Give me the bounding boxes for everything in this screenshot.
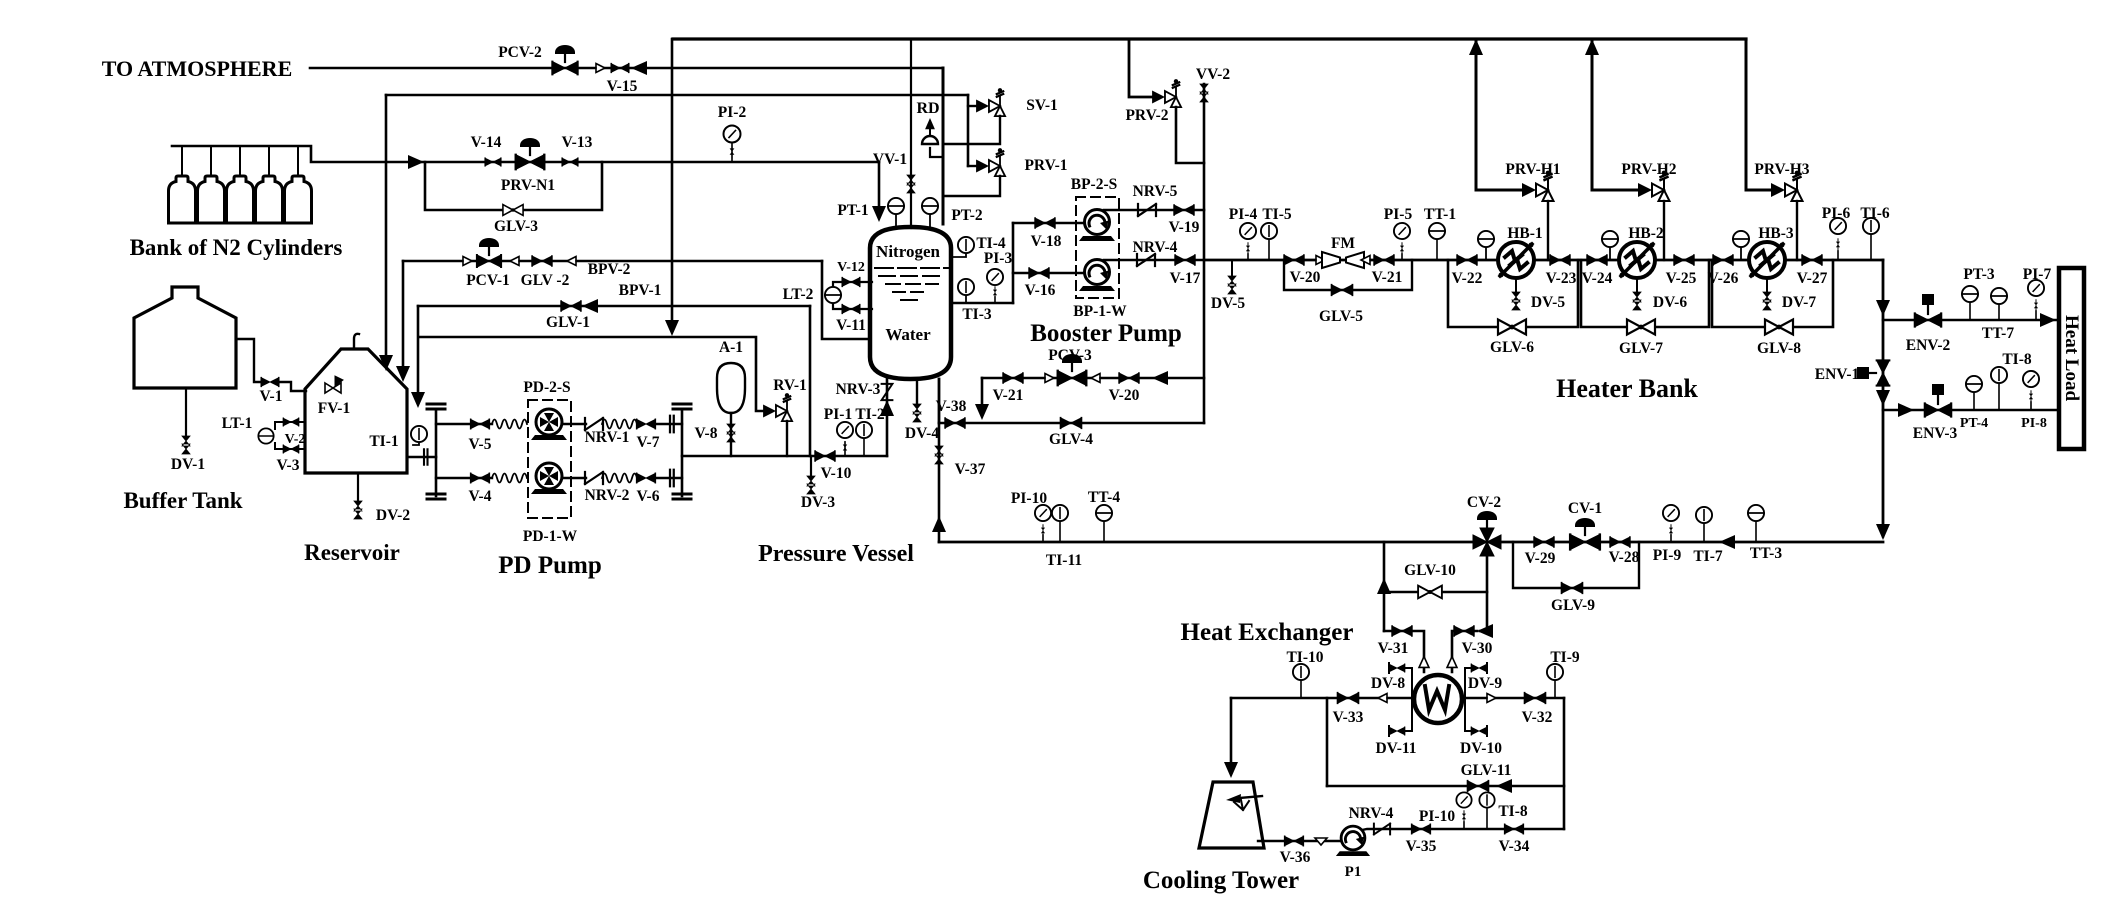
wire BP-2-S outlet NRV-5 line bbox=[1104, 209, 1204, 212]
svg-text:V-16: V-16 bbox=[1025, 282, 1056, 299]
svg-text:V-10: V-10 bbox=[821, 465, 852, 482]
svg-text:TI-6: TI-6 bbox=[1860, 205, 1890, 222]
wire main return line bbox=[939, 541, 1883, 544]
svg-text:V-6: V-6 bbox=[637, 488, 660, 505]
valve V-2 bbox=[283, 418, 298, 426]
svg-text:GLV-5: GLV-5 bbox=[1319, 308, 1363, 325]
flow arrow into reservoir wall bbox=[411, 392, 425, 408]
svg-text:ENV-3: ENV-3 bbox=[1913, 425, 1958, 442]
svg-text:DV-3: DV-3 bbox=[801, 494, 835, 511]
valve V-19 bbox=[1174, 205, 1194, 215]
svg-text:PI-4: PI-4 bbox=[1229, 206, 1258, 223]
svg-text:V-3: V-3 bbox=[277, 457, 300, 474]
wire PRV-2 outlet bbox=[1176, 107, 1204, 163]
svg-text:PI-9: PI-9 bbox=[1653, 547, 1682, 564]
gauge PT-4 bbox=[1973, 392, 1975, 410]
flow arrow on PCV-3 line bbox=[1152, 371, 1168, 385]
valve V-3 bbox=[283, 445, 298, 453]
flow arrow into V-15 bbox=[631, 61, 647, 75]
flow arrow up bbox=[932, 516, 946, 532]
wire GLV-10 branch riser bbox=[1383, 542, 1386, 631]
valve FV-1 float bbox=[325, 376, 343, 393]
valve V-6 bbox=[637, 473, 656, 482]
svg-text:DV-5: DV-5 bbox=[1531, 294, 1565, 311]
wire buffer outlet to V-1 bbox=[236, 339, 260, 382]
valve GLV-1 bbox=[561, 301, 581, 311]
svg-text:RD: RD bbox=[916, 100, 939, 117]
svg-text:DV-11: DV-11 bbox=[1375, 740, 1416, 757]
svg-text:HB-1: HB-1 bbox=[1507, 225, 1542, 242]
svg-text:NRV-4: NRV-4 bbox=[1133, 239, 1178, 256]
svg-text:TI-2: TI-2 bbox=[855, 406, 885, 423]
wire V-18 branch bbox=[1013, 222, 1084, 225]
flow arrow into heat load bbox=[2040, 313, 2056, 327]
gauge PI-3 bbox=[994, 297, 996, 303]
wire HX right port bbox=[1462, 697, 1564, 700]
flow arrow down bbox=[975, 404, 989, 420]
wire relief header y95 bbox=[386, 94, 968, 97]
svg-text:V-21: V-21 bbox=[1372, 269, 1403, 286]
svg-text:PD-2-S: PD-2-S bbox=[523, 379, 570, 396]
svg-text:Bank of N2 Cylinders: Bank of N2 Cylinders bbox=[130, 235, 343, 260]
svg-text:V-5: V-5 bbox=[469, 436, 492, 453]
valve V-13 bbox=[562, 158, 578, 166]
svg-text:PRV-H3: PRV-H3 bbox=[1754, 161, 1809, 178]
valve GLV-7 bbox=[1627, 320, 1655, 335]
svg-text:PD-1-W: PD-1-W bbox=[523, 528, 578, 545]
open arrow hot inlet bbox=[1419, 657, 1429, 668]
svg-text:Pressure Vessel: Pressure Vessel bbox=[758, 541, 914, 567]
svg-text:PRV-N1: PRV-N1 bbox=[501, 177, 555, 194]
valve V-21b bbox=[1003, 373, 1023, 383]
LT-2 standpipe bbox=[833, 282, 872, 288]
svg-text:V-19: V-19 bbox=[1169, 219, 1200, 236]
reducer bbox=[567, 257, 581, 266]
cylinder 4 drop bbox=[268, 146, 270, 177]
open arrow hot outlet bbox=[1447, 657, 1457, 668]
svg-text:V-14: V-14 bbox=[471, 134, 502, 151]
wire PRV-H1 stem bbox=[1547, 201, 1549, 260]
valve PCV-2 bbox=[552, 62, 577, 75]
pump P1 bbox=[1336, 826, 1370, 856]
wire drop to reservoir roof bbox=[385, 95, 388, 358]
valve V-20b bbox=[1119, 373, 1139, 383]
wire GLV-5 bypass bbox=[1284, 260, 1412, 290]
svg-text:Heat Load: Heat Load bbox=[2061, 315, 2082, 401]
svg-text:PI-5: PI-5 bbox=[1384, 206, 1413, 223]
relief bracket: SV-1/PRV-1 feed bbox=[967, 95, 970, 166]
wire GLV-8 bypass box bbox=[1712, 260, 1833, 327]
gauge TI-9 bbox=[1554, 681, 1556, 698]
wire GLV-4 line bbox=[939, 422, 1204, 425]
valve GLV-10 bbox=[1418, 586, 1442, 599]
N2 cylinder 2 bbox=[198, 176, 225, 223]
cooling tower bbox=[1199, 782, 1264, 848]
N2 manifold bbox=[172, 146, 416, 162]
wire PCV-3 bypass line bbox=[982, 377, 1204, 380]
valve PCV-1 bbox=[477, 255, 501, 267]
wire V-1 to reservoir bbox=[279, 382, 306, 391]
valve V-22 bbox=[1457, 255, 1477, 265]
svg-text:VV-1: VV-1 bbox=[873, 151, 907, 168]
svg-text:V-18: V-18 bbox=[1031, 233, 1062, 250]
svg-text:V-8: V-8 bbox=[695, 425, 718, 442]
check valve NRV-3 bbox=[882, 384, 893, 400]
gauge TI-2 bbox=[863, 439, 865, 456]
valve V-29 bbox=[1534, 537, 1554, 547]
gauge PI-10b bbox=[1463, 822, 1465, 829]
valve VV-2 bbox=[1200, 84, 1208, 102]
pump BP-1-W bbox=[1079, 260, 1115, 292]
svg-text:LT-2: LT-2 bbox=[783, 286, 814, 303]
reducer bbox=[1040, 374, 1054, 383]
wire V-31/V-30 line bbox=[1384, 631, 1424, 672]
wire GLV-3 bypass loop bbox=[425, 162, 602, 210]
gauge TI-4 bbox=[953, 253, 966, 257]
svg-text:FM: FM bbox=[1331, 235, 1355, 252]
check valve NRV-5 bbox=[1138, 204, 1156, 216]
svg-text:GLV-10: GLV-10 bbox=[1404, 562, 1456, 579]
wire PRV-1 outlet bbox=[943, 176, 1000, 196]
flow arrow onto return bbox=[1876, 524, 1890, 540]
svg-text:V-38: V-38 bbox=[936, 398, 967, 415]
flow arrow up into header bbox=[1469, 39, 1483, 55]
valve PCV-3 bbox=[1058, 371, 1087, 385]
wire atmosphere line bbox=[310, 67, 943, 70]
wire V-16 branch bbox=[1013, 272, 1084, 275]
svg-text:FV-1: FV-1 bbox=[318, 400, 350, 417]
wire GLV-11 line bbox=[1327, 785, 1564, 788]
thermostat stub HB-3 bbox=[1740, 247, 1742, 260]
flex hose bbox=[602, 474, 637, 483]
gauge PT-1 theta bbox=[895, 214, 897, 228]
svg-text:GLV-9: GLV-9 bbox=[1551, 597, 1595, 614]
heater HB-3 bbox=[1749, 242, 1785, 278]
relief valve PRV-H1 bbox=[1522, 171, 1554, 201]
N2 cylinder 4 bbox=[256, 176, 283, 223]
wire PRV-1 branch bbox=[968, 165, 977, 167]
wire GLV-9 bypass bbox=[1513, 542, 1639, 588]
svg-text:TO ATMOSPHERE: TO ATMOSPHERE bbox=[102, 56, 293, 81]
flow arrow up bbox=[1377, 578, 1391, 594]
wire PRV-H1 vent riser bbox=[1476, 39, 1523, 190]
drain DV-6 heater bbox=[1636, 278, 1638, 294]
valve GLV-5 bbox=[1332, 285, 1353, 295]
valve V-5 bbox=[471, 419, 490, 428]
flow arrow into vessel bbox=[872, 206, 886, 222]
flow arrow N2 supply bbox=[408, 155, 424, 169]
valve V-8 on accumulator stem bbox=[730, 413, 732, 456]
wire BP-1-W outlet NRV-4 line bbox=[1104, 259, 1204, 262]
svg-text:V-4: V-4 bbox=[469, 488, 492, 505]
dashed box PD pumps bbox=[528, 400, 571, 518]
accumulator A-1 bbox=[717, 363, 745, 413]
svg-text:PI-6: PI-6 bbox=[1822, 205, 1851, 222]
wire VV-2 riser / bypass downcomer bbox=[1203, 84, 1206, 423]
valve V-25 bbox=[1674, 255, 1694, 265]
svg-text:V-22: V-22 bbox=[1452, 270, 1483, 287]
discharge header bbox=[681, 410, 684, 496]
wire BPV-2 line bbox=[403, 260, 822, 263]
suction header bbox=[435, 410, 438, 496]
svg-text:PT-1: PT-1 bbox=[837, 202, 868, 219]
wire main process line bbox=[1204, 259, 1883, 262]
wire GLV-1 riser bbox=[809, 306, 812, 456]
valve GLV-6 bbox=[1498, 320, 1526, 335]
svg-text:BPV-1: BPV-1 bbox=[619, 282, 662, 299]
svg-text:PI-2: PI-2 bbox=[718, 104, 747, 121]
flow arrow into V-30 bbox=[1477, 624, 1493, 638]
flow arrow onto roof bbox=[379, 355, 393, 371]
wire SV-1 outlet bbox=[943, 116, 1000, 144]
gauge TI-3 bbox=[965, 295, 967, 303]
flow arrow up into header bbox=[1585, 39, 1599, 55]
gauge PI-1 bbox=[844, 442, 846, 456]
cylinder 2 drop bbox=[210, 146, 212, 177]
svg-text:PD Pump: PD Pump bbox=[498, 552, 601, 579]
wire bbox=[657, 423, 682, 425]
svg-text:P1: P1 bbox=[1345, 864, 1362, 880]
LT-1 level taps bbox=[275, 422, 305, 429]
valve V-32 bbox=[1525, 693, 1546, 703]
svg-text:V-11: V-11 bbox=[836, 317, 866, 334]
svg-text:TT-1: TT-1 bbox=[1424, 206, 1456, 223]
relief valve PRV-H2 bbox=[1638, 171, 1670, 201]
gauge TI-1 bbox=[413, 442, 419, 445]
strainer bbox=[1315, 838, 1327, 845]
dashed box booster pumps bbox=[1076, 197, 1119, 298]
valve V-20 bbox=[1284, 255, 1304, 265]
water surface dashes bbox=[875, 268, 949, 300]
svg-text:GLV -2: GLV -2 bbox=[521, 272, 570, 289]
valve CV-1 bbox=[1570, 535, 1600, 550]
svg-text:PI-3: PI-3 bbox=[984, 250, 1013, 267]
svg-text:V-27: V-27 bbox=[1797, 270, 1828, 287]
buffer tank bbox=[134, 287, 236, 388]
flex hose bbox=[602, 420, 637, 429]
svg-text:GLV-4: GLV-4 bbox=[1049, 431, 1093, 448]
valve V-35 bbox=[1412, 824, 1431, 833]
svg-text:TI-9: TI-9 bbox=[1550, 649, 1580, 666]
wire PCV-3 line drop bbox=[981, 378, 984, 410]
wire bbox=[657, 477, 682, 479]
svg-text:LT-1: LT-1 bbox=[222, 415, 253, 432]
wire NRV-3 riser into vessel bbox=[886, 378, 889, 456]
svg-text:Water: Water bbox=[885, 325, 931, 344]
svg-text:Heat Exchanger: Heat Exchanger bbox=[1181, 619, 1354, 646]
valve V-30 bbox=[1454, 626, 1474, 636]
drain DV-7 heater bbox=[1766, 278, 1768, 294]
tower spray bbox=[1240, 796, 1262, 798]
flow arrow down bbox=[665, 320, 679, 336]
wire CV-2 lower stem bbox=[1480, 556, 1487, 631]
flow arrow GLV-11 bbox=[1496, 779, 1512, 793]
valve GLV-9 bbox=[1562, 583, 1583, 593]
wire return drop into reservoir bbox=[417, 306, 420, 398]
svg-text:V-2: V-2 bbox=[285, 432, 306, 447]
valve V-33 bbox=[1338, 693, 1359, 703]
svg-text:TT-7: TT-7 bbox=[1982, 325, 2014, 342]
gauge TI-5 bbox=[1268, 240, 1270, 260]
gauge PT-2 theta bbox=[929, 214, 931, 228]
wire relief return line y337 bbox=[419, 337, 763, 411]
valve V-4 bbox=[471, 473, 490, 482]
gauge TT-7 bbox=[1998, 304, 2000, 320]
svg-text:TI-5: TI-5 bbox=[1262, 206, 1292, 223]
N2 cylinder 3 bbox=[227, 176, 254, 223]
wire BPV-2 drop to vessel bbox=[822, 261, 872, 339]
heater HB-2 bbox=[1619, 242, 1655, 278]
svg-text:TT-3: TT-3 bbox=[1750, 545, 1782, 562]
wire V-37 drop bbox=[938, 423, 941, 542]
wire ENV-2 line bbox=[1883, 319, 2061, 322]
svg-text:V-33: V-33 bbox=[1333, 709, 1364, 726]
svg-text:NRV-2: NRV-2 bbox=[585, 487, 630, 504]
svg-text:PCV-2: PCV-2 bbox=[498, 44, 542, 61]
gauge TI-8b bbox=[1486, 809, 1488, 829]
valve DV-1 bbox=[182, 436, 190, 454]
svg-text:V-30: V-30 bbox=[1462, 640, 1493, 657]
rupture disc RD bbox=[930, 148, 943, 157]
svg-text:DV-9: DV-9 bbox=[1468, 675, 1502, 692]
svg-text:TI-8: TI-8 bbox=[1498, 803, 1528, 820]
reducer bbox=[591, 64, 605, 73]
svg-text:BP-2-S: BP-2-S bbox=[1071, 176, 1118, 193]
valve V-23 bbox=[1550, 255, 1570, 265]
svg-text:V-35: V-35 bbox=[1406, 838, 1437, 855]
svg-text:DV-1: DV-1 bbox=[171, 456, 205, 473]
svg-text:TT-4: TT-4 bbox=[1088, 489, 1120, 506]
svg-text:BP-1-W: BP-1-W bbox=[1073, 303, 1127, 320]
wire bbox=[562, 423, 586, 425]
flow arrow down bbox=[1876, 390, 1890, 406]
svg-text:PT-4: PT-4 bbox=[1960, 416, 1988, 431]
svg-text:Booster Pump: Booster Pump bbox=[1030, 320, 1182, 347]
gauge PI-7 bbox=[2035, 311, 2037, 320]
drain DV-11 bbox=[1403, 698, 1412, 731]
svg-text:V-23: V-23 bbox=[1546, 270, 1577, 287]
svg-text:GLV-6: GLV-6 bbox=[1490, 339, 1534, 356]
gauge PI-9 bbox=[1670, 535, 1672, 542]
wire ENV-3 line bbox=[1883, 409, 2061, 412]
thermostat stub HB-2 bbox=[1609, 247, 1611, 260]
wire pump outlet bbox=[1362, 829, 1564, 830]
svg-text:PRV-1: PRV-1 bbox=[1024, 157, 1067, 174]
svg-text:VV-2: VV-2 bbox=[1196, 66, 1230, 83]
gauge PI-10 bbox=[1042, 535, 1044, 542]
svg-text:V-24: V-24 bbox=[1582, 270, 1613, 287]
flow arrow up bbox=[880, 400, 894, 416]
svg-text:TI-8: TI-8 bbox=[2002, 351, 2032, 368]
wire BPV-2 drop to reservoir bbox=[402, 261, 405, 372]
valve GLV-2 bbox=[532, 256, 552, 266]
svg-text:DV-8: DV-8 bbox=[1371, 675, 1405, 692]
valve DV-2 bbox=[354, 501, 362, 519]
svg-text:HB-3: HB-3 bbox=[1758, 225, 1794, 242]
valve V-38 bbox=[945, 418, 965, 428]
svg-text:GLV-1: GLV-1 bbox=[546, 314, 590, 331]
valve V-10 bbox=[815, 451, 835, 461]
valve V-18 bbox=[1035, 218, 1055, 228]
svg-text:TI-11: TI-11 bbox=[1046, 552, 1082, 569]
wire bbox=[562, 477, 586, 479]
svg-text:BPV-2: BPV-2 bbox=[588, 261, 631, 278]
svg-text:DV-6: DV-6 bbox=[1653, 294, 1687, 311]
drain DV-10 bbox=[1465, 698, 1473, 731]
svg-text:TI-1: TI-1 bbox=[369, 433, 398, 450]
valve V-12 bbox=[842, 278, 860, 287]
svg-text:V-13: V-13 bbox=[562, 134, 593, 151]
svg-text:PRV-H1: PRV-H1 bbox=[1505, 161, 1560, 178]
svg-text:PRV-H2: PRV-H2 bbox=[1621, 161, 1676, 178]
svg-text:V-21: V-21 bbox=[993, 387, 1024, 404]
wire GLV-1 line bbox=[418, 305, 810, 308]
wire pump discharge line bbox=[682, 455, 887, 458]
N2 cylinder 1 bbox=[169, 176, 196, 223]
relief valve SV-1 bbox=[976, 88, 1005, 116]
reducer bbox=[510, 257, 524, 266]
svg-text:V-7: V-7 bbox=[637, 434, 660, 451]
valve PRV-N1 bbox=[516, 155, 545, 169]
svg-text:PI-10: PI-10 bbox=[1419, 808, 1455, 825]
svg-text:V-25: V-25 bbox=[1666, 270, 1697, 287]
svg-text:GLV-11: GLV-11 bbox=[1461, 762, 1512, 779]
wire PRV-H2 vent riser bbox=[1592, 39, 1639, 190]
reducer bbox=[1378, 694, 1392, 703]
svg-text:V-37: V-37 bbox=[955, 461, 986, 478]
valve VV-1 bbox=[907, 175, 915, 193]
relief valve PRV-H3 bbox=[1771, 171, 1803, 201]
wire top vent header bbox=[673, 37, 1746, 40]
drain stub DV-5a bbox=[1231, 260, 1233, 278]
wire GLV-10 line bbox=[1384, 591, 1487, 594]
svg-text:PRV-2: PRV-2 bbox=[1125, 107, 1168, 124]
svg-text:V-1: V-1 bbox=[260, 388, 283, 405]
reducer bbox=[1091, 374, 1105, 383]
svg-text:PI-1: PI-1 bbox=[824, 406, 852, 423]
gauge PI-4 bbox=[1247, 254, 1249, 260]
check valve NRV-1 bbox=[585, 418, 603, 430]
reducer bbox=[458, 257, 472, 266]
vessel outlet V-38 drop bbox=[938, 379, 941, 423]
svg-text:Nitrogen: Nitrogen bbox=[876, 242, 940, 261]
wire PRV-H2 stem bbox=[1663, 201, 1665, 260]
svg-text:V-36: V-36 bbox=[1280, 849, 1311, 866]
wire header drop to PRV-2 bbox=[1129, 39, 1155, 97]
gauge LT-1 bbox=[258, 428, 273, 443]
svg-text:PI-8: PI-8 bbox=[2021, 416, 2047, 431]
valve GLV-3 bbox=[503, 205, 523, 216]
svg-text:DV-10: DV-10 bbox=[1460, 740, 1502, 757]
svg-text:NRV-5: NRV-5 bbox=[1133, 183, 1178, 200]
cylinder 5 drop bbox=[297, 146, 299, 177]
svg-text:V-31: V-31 bbox=[1378, 640, 1409, 657]
svg-text:V-12: V-12 bbox=[837, 260, 865, 275]
valve V-37 bbox=[935, 446, 943, 464]
cylinder 3 drop bbox=[239, 146, 241, 177]
svg-text:NRV-1: NRV-1 bbox=[585, 429, 630, 446]
valve V-24 bbox=[1587, 255, 1607, 265]
flow arrow BPV-1 bbox=[582, 299, 598, 313]
svg-text:SV-1: SV-1 bbox=[1026, 97, 1058, 114]
svg-text:Buffer Tank: Buffer Tank bbox=[123, 488, 242, 513]
N2 inlet drop with arrow PT-1 bbox=[878, 162, 881, 208]
drain stub DV-3 bbox=[810, 456, 812, 478]
svg-text:V-34: V-34 bbox=[1499, 838, 1530, 855]
svg-text:V-17: V-17 bbox=[1170, 270, 1201, 287]
valve ENV-1 bbox=[1877, 360, 1890, 385]
svg-text:CV-1: CV-1 bbox=[1568, 500, 1602, 517]
